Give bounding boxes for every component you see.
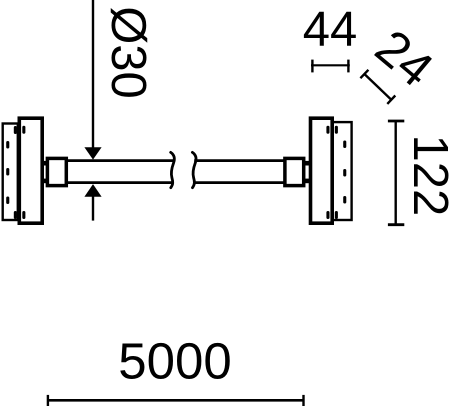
svg-text:5000: 5000 <box>118 333 231 390</box>
svg-text:44: 44 <box>303 3 358 57</box>
tick lower of 24 <box>387 96 395 104</box>
tube right segment top line <box>194 159 285 162</box>
left back plate side slot 3 <box>6 197 9 205</box>
tick left of 44 <box>311 60 313 73</box>
left connector neck <box>43 161 50 166</box>
right back plate slot bottom <box>335 211 338 219</box>
right back plate slot top <box>335 126 338 134</box>
left back plate side slot 2 <box>6 168 9 176</box>
right back plate side slot 2 <box>343 169 346 177</box>
dimension line 5000 <box>48 399 304 402</box>
right wall back plate <box>332 122 351 220</box>
right back plate side slot 3 <box>343 196 346 204</box>
svg-text:122: 122 <box>403 135 450 217</box>
svg-text:Ø30: Ø30 <box>101 6 155 99</box>
left back plate side slot 1 <box>6 141 9 149</box>
tick bottom of 122 <box>388 223 404 226</box>
dimension line 24 (diagonal) <box>364 74 391 100</box>
left back plate slot bottom <box>14 211 17 219</box>
right mount body slot bottom <box>326 211 329 219</box>
left end cap <box>47 158 66 185</box>
right back plate side slot 1 <box>343 141 346 149</box>
tick top of 122 <box>388 120 404 123</box>
right end cap <box>285 158 304 185</box>
left mount body <box>19 118 42 223</box>
tick upper of 24 <box>360 70 368 78</box>
dimension extension line top (Ø30) <box>92 0 94 149</box>
arrow up to tube bottom <box>84 184 101 197</box>
break squiggle right <box>192 152 196 187</box>
arrow down to tube top <box>84 147 101 159</box>
tick right of 44 <box>347 60 349 73</box>
tube right segment bottom line <box>193 181 285 184</box>
left wall back plate <box>3 124 18 221</box>
break squiggle left <box>171 152 175 187</box>
tick right of 5000 <box>302 395 304 406</box>
tube left segment bottom line <box>65 181 173 184</box>
tick left of 5000 <box>47 395 49 406</box>
tube left segment top line <box>65 159 174 162</box>
dimension extension line bottom (Ø30) <box>92 196 94 221</box>
left mount body slot bottom <box>22 211 25 219</box>
dimension line 122 <box>395 121 397 225</box>
right mount body slot top <box>326 126 329 134</box>
right mount body <box>311 118 333 223</box>
left mount body slot top <box>22 126 25 134</box>
dimension line 44 <box>311 64 350 66</box>
left back plate slot top <box>14 126 17 134</box>
right connector neck <box>302 161 310 166</box>
